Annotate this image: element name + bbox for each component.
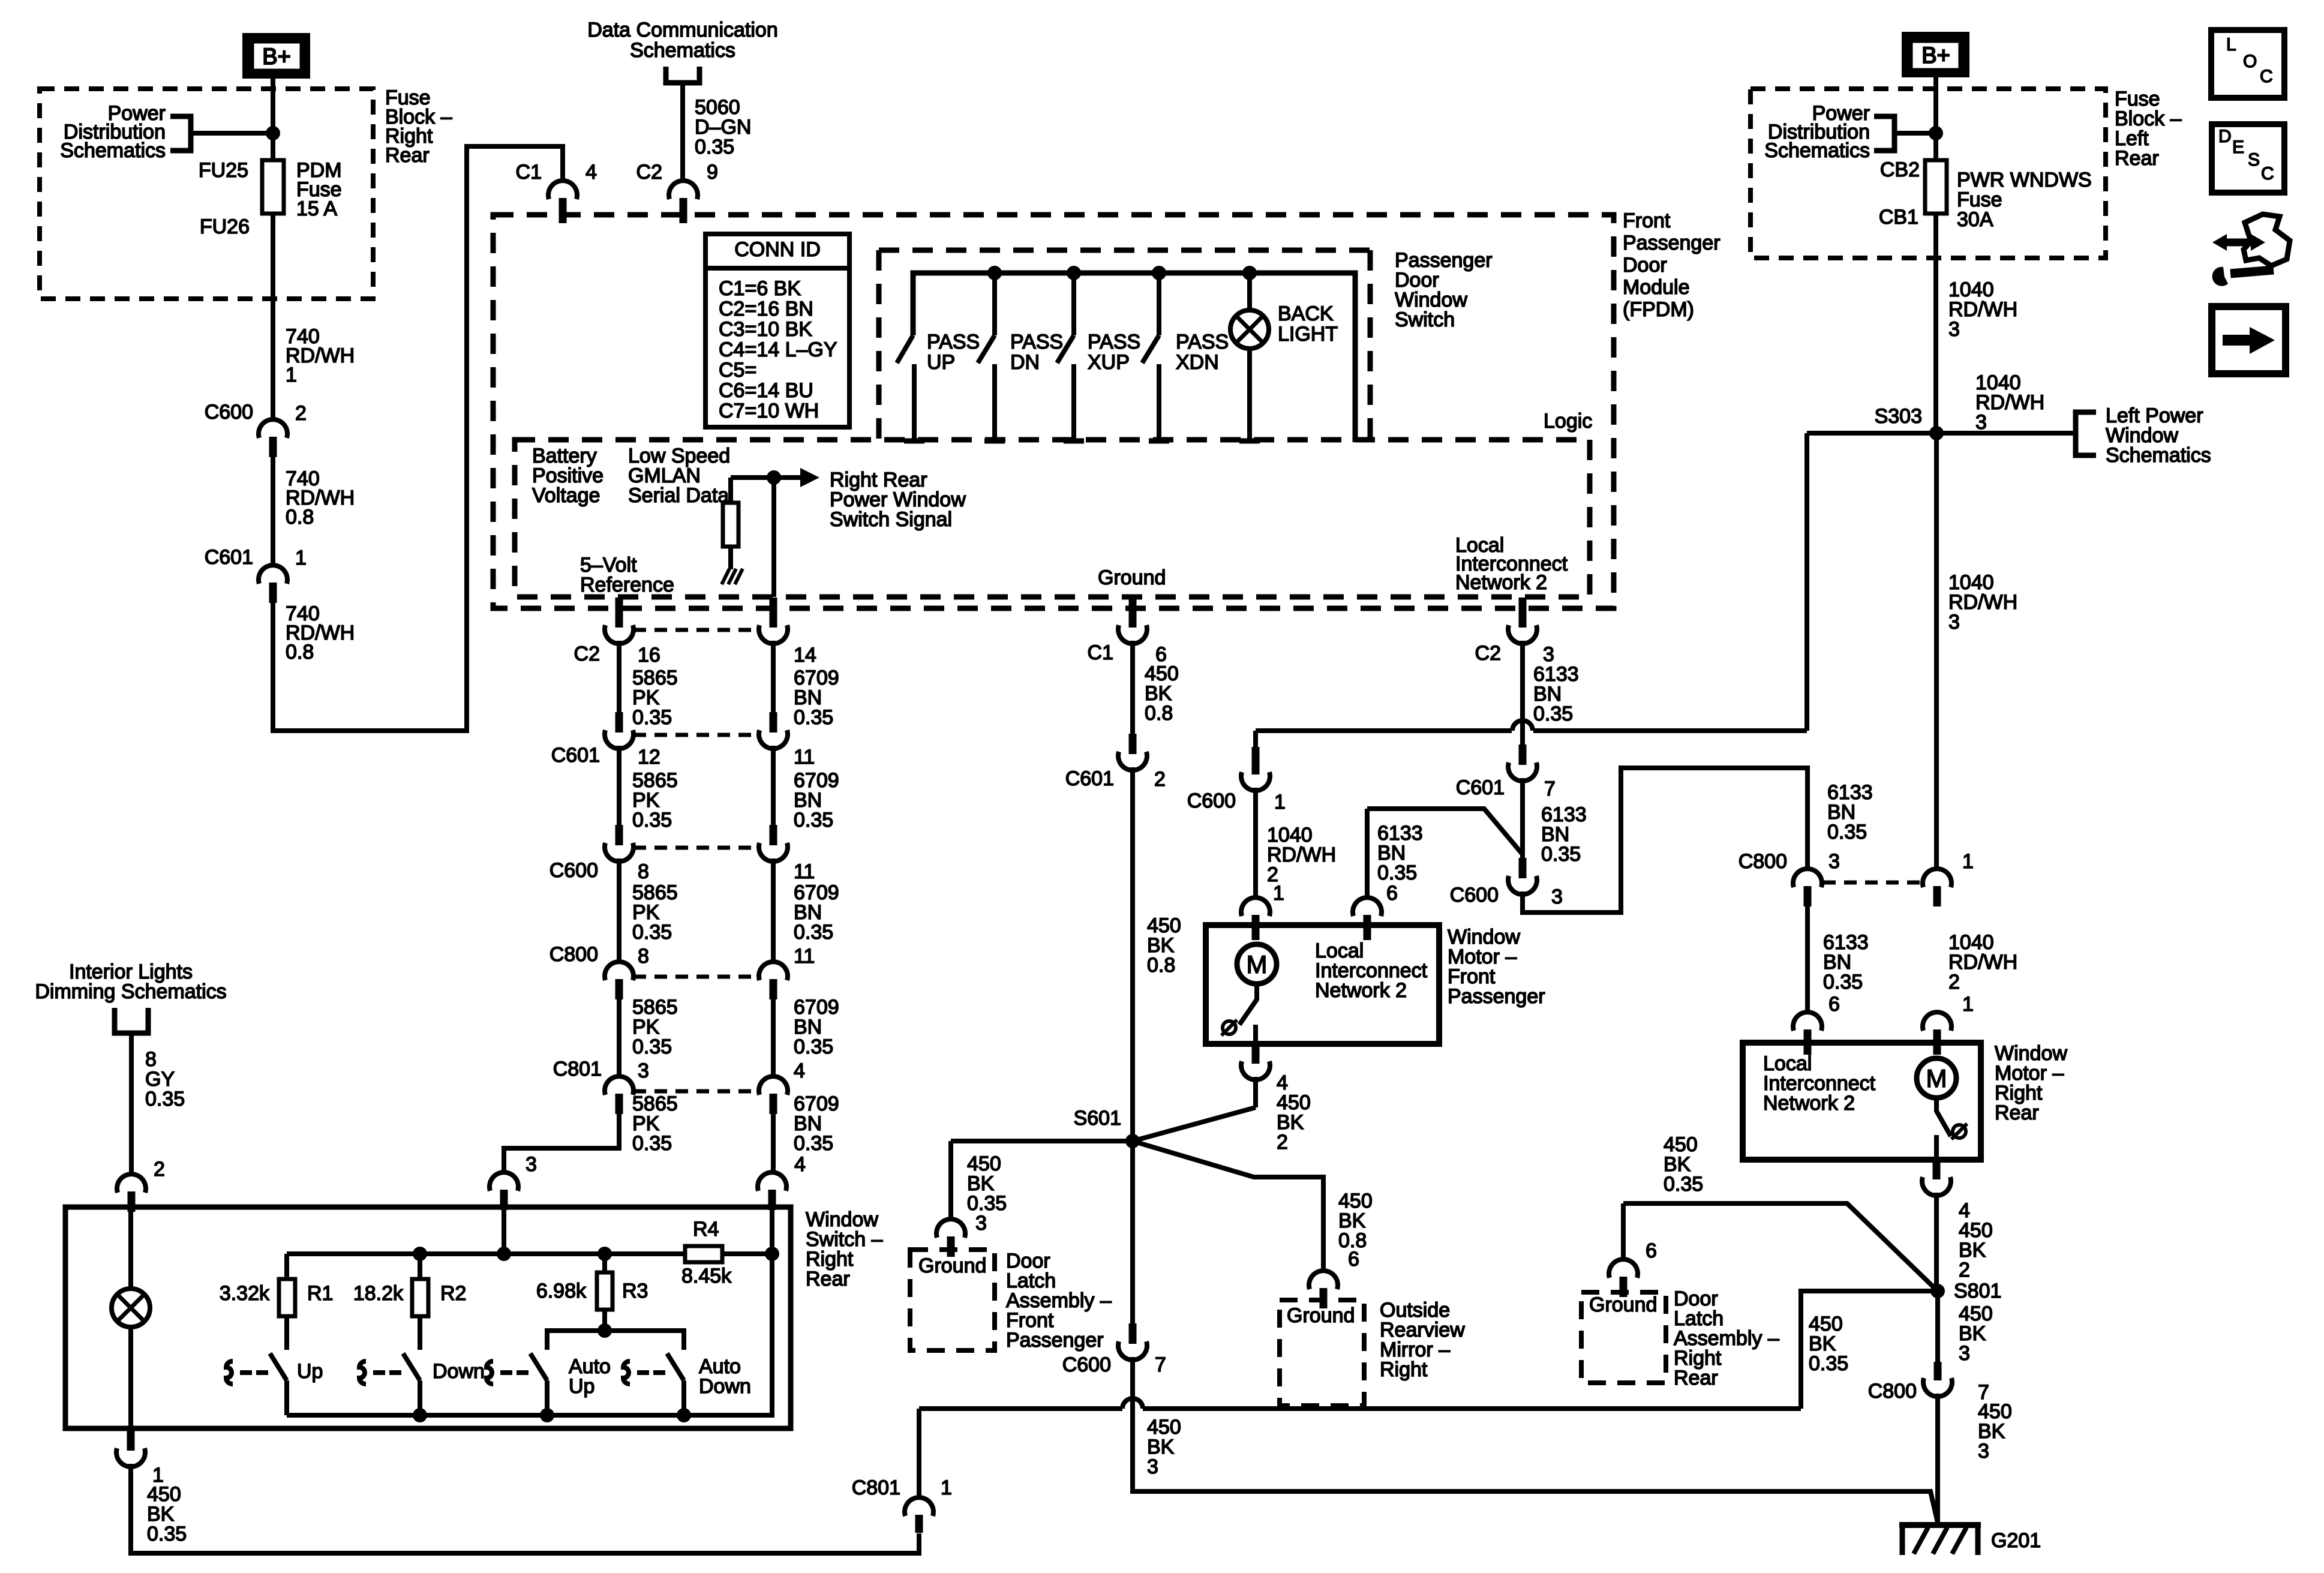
svg-text:L: L <box>2226 35 2236 55</box>
svg-text:3: 3 <box>1948 318 1960 341</box>
svg-text:Passenger: Passenger <box>1006 1329 1104 1352</box>
svg-text:Up: Up <box>569 1375 594 1398</box>
svg-text:PASS: PASS <box>1176 331 1229 353</box>
svg-text:R2: R2 <box>440 1282 466 1305</box>
svg-text:Door: Door <box>1623 254 1667 277</box>
svg-text:Ground: Ground <box>1287 1304 1355 1327</box>
svg-text:D: D <box>2218 127 2232 146</box>
svg-text:C600: C600 <box>1187 789 1236 812</box>
svg-text:3: 3 <box>975 1212 987 1235</box>
svg-text:M: M <box>1247 950 1268 978</box>
svg-text:2: 2 <box>154 1158 165 1181</box>
svg-text:9: 9 <box>707 161 718 184</box>
svg-text:30A: 30A <box>1957 208 1993 231</box>
svg-text:11: 11 <box>794 945 815 968</box>
svg-text:14: 14 <box>794 644 816 667</box>
svg-text:B+: B+ <box>1921 43 1950 68</box>
svg-text:PASS: PASS <box>927 331 980 353</box>
svg-text:Schematics: Schematics <box>2106 444 2211 467</box>
svg-text:C601: C601 <box>1065 767 1114 790</box>
svg-text:Down: Down <box>433 1360 485 1383</box>
svg-text:1: 1 <box>1962 993 1974 1016</box>
svg-text:C800: C800 <box>550 943 598 966</box>
svg-text:C1: C1 <box>516 161 542 184</box>
svg-text:0.35: 0.35 <box>145 1088 185 1110</box>
svg-text:C2: C2 <box>574 643 600 665</box>
svg-text:UP: UP <box>927 351 955 374</box>
svg-text:16: 16 <box>638 644 660 667</box>
svg-text:C2=16 BN: C2=16 BN <box>719 298 813 320</box>
svg-text:4: 4 <box>585 161 597 184</box>
svg-text:0.35: 0.35 <box>1541 843 1581 866</box>
svg-text:C601: C601 <box>551 744 600 767</box>
svg-text:C801: C801 <box>852 1476 900 1499</box>
svg-text:Reference: Reference <box>580 574 674 596</box>
svg-text:Rear: Rear <box>1995 1101 2039 1124</box>
svg-text:C800: C800 <box>1868 1380 1917 1403</box>
svg-text:3: 3 <box>638 1059 649 1082</box>
svg-text:Ground: Ground <box>918 1254 986 1277</box>
svg-text:Rear: Rear <box>2115 147 2159 170</box>
svg-text:DN: DN <box>1010 351 1040 374</box>
svg-text:BACK: BACK <box>1278 302 1334 325</box>
svg-text:0.35: 0.35 <box>794 921 833 944</box>
svg-text:Schematics: Schematics <box>1764 139 1870 162</box>
svg-text:3: 3 <box>1975 411 1987 434</box>
svg-text:FU25: FU25 <box>199 159 248 182</box>
svg-text:Module: Module <box>1623 276 1690 299</box>
svg-text:Switch Signal: Switch Signal <box>830 508 952 531</box>
svg-text:Front: Front <box>1623 209 1671 232</box>
svg-text:0.35: 0.35 <box>794 706 833 729</box>
svg-text:0.35: 0.35 <box>632 706 672 729</box>
svg-text:R3: R3 <box>622 1280 648 1302</box>
svg-text:0.35: 0.35 <box>1377 861 1417 884</box>
svg-text:8: 8 <box>638 945 649 968</box>
svg-text:Rear: Rear <box>385 144 430 167</box>
svg-text:B+: B+ <box>262 44 291 70</box>
svg-text:(FPDM): (FPDM) <box>1623 298 1694 321</box>
svg-text:6: 6 <box>1348 1248 1359 1271</box>
svg-text:6: 6 <box>1386 882 1398 905</box>
svg-text:0.8: 0.8 <box>1147 954 1175 977</box>
svg-text:Serial Data: Serial Data <box>628 484 729 507</box>
svg-text:0.35: 0.35 <box>632 1132 672 1155</box>
svg-text:3: 3 <box>1959 1342 1970 1365</box>
svg-text:0.35: 0.35 <box>632 921 672 944</box>
svg-text:Network 2: Network 2 <box>1763 1092 1855 1115</box>
svg-text:XDN: XDN <box>1176 351 1219 374</box>
svg-text:0.35: 0.35 <box>794 1035 833 1058</box>
svg-text:0.35: 0.35 <box>1827 821 1867 843</box>
svg-text:0.8: 0.8 <box>286 506 314 529</box>
svg-text:Network 2: Network 2 <box>1455 571 1547 594</box>
svg-text:1: 1 <box>286 364 297 386</box>
svg-text:Schematics: Schematics <box>630 39 735 62</box>
svg-text:PASS: PASS <box>1010 331 1063 353</box>
svg-text:3: 3 <box>1147 1455 1158 1478</box>
svg-text:C800: C800 <box>1739 850 1787 873</box>
svg-text:CB1: CB1 <box>1879 206 1918 229</box>
svg-text:0.35: 0.35 <box>1533 703 1573 725</box>
svg-text:Passenger: Passenger <box>1448 985 1545 1008</box>
svg-text:Passenger: Passenger <box>1623 232 1721 254</box>
svg-text:0.8: 0.8 <box>286 641 314 664</box>
svg-text:C5=: C5= <box>719 359 756 382</box>
svg-text:Ground: Ground <box>1589 1293 1657 1316</box>
svg-text:G201: G201 <box>1991 1529 2041 1552</box>
svg-text:0.35: 0.35 <box>794 1132 833 1155</box>
svg-text:Up: Up <box>297 1360 323 1383</box>
svg-text:C: C <box>2261 164 2274 184</box>
svg-text:Dimming Schematics: Dimming Schematics <box>35 980 226 1003</box>
svg-text:S303: S303 <box>1875 405 1922 428</box>
svg-text:S801: S801 <box>1954 1280 2001 1302</box>
svg-text:6.98k: 6.98k <box>536 1280 587 1302</box>
svg-text:XUP: XUP <box>1088 351 1130 374</box>
svg-text:C3=10 BK: C3=10 BK <box>719 318 812 341</box>
svg-text:C: C <box>2260 67 2273 86</box>
svg-text:CB2: CB2 <box>1880 158 1920 181</box>
svg-text:S601: S601 <box>1074 1107 1121 1130</box>
svg-text:3: 3 <box>1828 850 1840 873</box>
svg-text:Switch: Switch <box>1395 308 1455 331</box>
svg-text:2: 2 <box>1154 768 1166 791</box>
svg-text:3.32k: 3.32k <box>220 1282 270 1305</box>
svg-text:0.35: 0.35 <box>632 1035 672 1058</box>
svg-text:18.2k: 18.2k <box>353 1282 404 1305</box>
svg-text:C601: C601 <box>1456 776 1505 799</box>
svg-text:7: 7 <box>1155 1353 1166 1376</box>
svg-text:C7=10 WH: C7=10 WH <box>719 400 819 422</box>
svg-text:Schematics: Schematics <box>60 139 166 162</box>
svg-text:C2: C2 <box>636 161 662 184</box>
svg-text:Rear: Rear <box>806 1268 850 1290</box>
svg-text:0.35: 0.35 <box>1809 1352 1848 1375</box>
svg-text:Down: Down <box>699 1375 751 1398</box>
svg-text:15 A: 15 A <box>296 197 337 220</box>
svg-text:2: 2 <box>1277 1131 1288 1154</box>
svg-text:11: 11 <box>794 746 815 769</box>
svg-text:2: 2 <box>295 402 307 425</box>
svg-text:LIGHT: LIGHT <box>1278 323 1338 346</box>
svg-text:1: 1 <box>1273 882 1284 905</box>
svg-text:4: 4 <box>794 1059 805 1082</box>
svg-text:0.35: 0.35 <box>1664 1173 1703 1196</box>
svg-text:Data Communication: Data Communication <box>587 19 777 41</box>
svg-text:12: 12 <box>638 746 660 769</box>
svg-text:C1=6 BK: C1=6 BK <box>719 277 801 300</box>
svg-text:E: E <box>2232 137 2244 157</box>
svg-text:0.35: 0.35 <box>632 809 672 831</box>
svg-text:R1: R1 <box>307 1282 333 1305</box>
svg-text:C600: C600 <box>1450 884 1499 906</box>
svg-text:3: 3 <box>1551 885 1563 908</box>
svg-text:CONN ID: CONN ID <box>734 238 821 261</box>
svg-text:C600: C600 <box>205 401 253 424</box>
svg-text:C600: C600 <box>550 859 598 882</box>
svg-text:C6=14 BU: C6=14 BU <box>719 379 813 402</box>
svg-text:O: O <box>2243 52 2257 71</box>
svg-text:3: 3 <box>1978 1440 1989 1463</box>
svg-text:0.35: 0.35 <box>794 809 833 831</box>
svg-text:11: 11 <box>794 860 815 883</box>
svg-text:0.35: 0.35 <box>1823 971 1863 993</box>
svg-text:Ground: Ground <box>1098 566 1166 589</box>
svg-text:4: 4 <box>794 1153 806 1176</box>
svg-text:Logic: Logic <box>1544 410 1592 433</box>
svg-text:6: 6 <box>1646 1239 1657 1262</box>
svg-text:0.35: 0.35 <box>147 1523 187 1545</box>
svg-text:8: 8 <box>638 860 649 883</box>
svg-text:FU26: FU26 <box>200 215 250 238</box>
svg-text:2: 2 <box>1959 1259 1970 1281</box>
svg-text:S: S <box>2248 150 2260 170</box>
svg-text:0.35: 0.35 <box>695 136 734 158</box>
svg-text:3: 3 <box>526 1153 537 1176</box>
svg-text:1: 1 <box>941 1476 952 1499</box>
svg-text:Voltage: Voltage <box>532 484 600 507</box>
svg-text:3: 3 <box>1948 611 1960 634</box>
svg-text:C2: C2 <box>1475 642 1501 665</box>
svg-text:PASS: PASS <box>1088 331 1140 353</box>
svg-text:8.45k: 8.45k <box>681 1265 732 1287</box>
svg-text:Rear: Rear <box>1674 1367 1718 1389</box>
svg-text:C4=14 L–GY: C4=14 L–GY <box>719 338 837 361</box>
svg-text:Network 2: Network 2 <box>1315 979 1407 1002</box>
svg-text:C1: C1 <box>1088 641 1113 664</box>
svg-text:C600: C600 <box>1062 1353 1111 1376</box>
svg-text:0.35: 0.35 <box>967 1192 1007 1215</box>
svg-text:6: 6 <box>1828 993 1840 1016</box>
svg-text:1: 1 <box>295 547 307 569</box>
svg-text:C801: C801 <box>553 1058 602 1080</box>
svg-text:R4: R4 <box>693 1218 719 1241</box>
svg-text:1: 1 <box>1274 791 1286 813</box>
svg-text:0.8: 0.8 <box>1145 702 1173 725</box>
svg-text:C601: C601 <box>205 546 253 569</box>
svg-text:M: M <box>1926 1064 1947 1092</box>
svg-text:1: 1 <box>1962 850 1974 873</box>
svg-text:Right: Right <box>1380 1358 1428 1381</box>
svg-text:7: 7 <box>1544 778 1556 800</box>
svg-text:2: 2 <box>1948 971 1960 993</box>
